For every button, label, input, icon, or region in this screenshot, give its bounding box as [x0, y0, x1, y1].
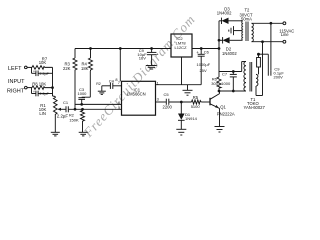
svg-text:10K: 10K [39, 60, 47, 65]
svg-text:150K: 150K [69, 117, 79, 122]
svg-text:2.2µF: 2.2µF [40, 92, 50, 96]
resistor R5 [191, 95, 210, 109]
wire signal line A to IC pin 6 [75, 103, 122, 105]
svg-text:+: + [33, 90, 35, 94]
wire IC2 ground pin [181, 57, 183, 85]
svg-text:INPUT: INPUT [8, 79, 25, 85]
capacitor C9 10uF 16V [137, 48, 159, 66]
capacitor C6 [196, 48, 211, 85]
wire IC1 pin8 riser [115, 48, 121, 82]
transistor Q1 [210, 94, 235, 117]
resistor R7 [32, 56, 53, 69]
wire +V feed to T1 [219, 62, 246, 72]
wire IC1 pin1 to ground bus [156, 84, 202, 86]
svg-text:LIN: LIN [39, 111, 46, 116]
svg-text:50mA: 50mA [241, 17, 252, 22]
IC IC2 LM78L12CZ regulator [171, 34, 192, 57]
svg-text:22K: 22K [63, 66, 71, 71]
svg-text:C4: C4 [109, 78, 115, 83]
ground (T2 CT, rotated) [229, 26, 234, 35]
svg-text:L12CZ: L12CZ [175, 45, 188, 50]
diode D3 [217, 6, 243, 24]
svg-text:7: 7 [118, 80, 120, 85]
wire T1 secondary bottom to AC line [256, 42, 263, 96]
wire Q1 emitter to ground [218, 107, 221, 110]
svg-text:C1: C1 [63, 100, 69, 105]
wire signal line B to IC pin 5 [68, 108, 121, 110]
capacitor C2 right input coupling [32, 88, 53, 97]
svg-text:1000: 1000 [78, 91, 88, 96]
resistor R8 [32, 81, 53, 89]
capacitor C4 [102, 78, 122, 89]
svg-text:+: + [33, 70, 35, 74]
svg-text:YAN-60027: YAN-60027 [244, 105, 266, 110]
potentiometer R1 [39, 96, 66, 132]
capacitor C1 [57, 100, 74, 118]
diode D2 [218, 37, 242, 56]
svg-text:16V: 16V [139, 55, 146, 60]
ground (bus) [183, 85, 193, 96]
svg-text:1000: 1000 [221, 81, 231, 86]
wire T2 primary bottom to AC line [252, 41, 284, 43]
svg-text:FreeCircuitDiagram.Com: FreeCircuitDiagram.Com [80, 12, 198, 141]
IC IC1 LM566CN [118, 80, 159, 115]
capacitor C3 [78, 87, 91, 105]
capacitor C9 0.1uF 200V [268, 66, 284, 79]
transformer T2 [240, 8, 254, 42]
svg-text:R2: R2 [96, 82, 101, 86]
wire R3 column [74, 71, 76, 110]
ground (R1) [51, 132, 60, 136]
wire Q1 collector [220, 91, 247, 94]
node LEFT input terminal [8, 66, 32, 72]
svg-text:LEFT: LEFT [8, 66, 22, 72]
svg-text:C6: C6 [204, 50, 210, 55]
svg-text:1N4002: 1N4002 [222, 51, 237, 56]
svg-text:LM566CN: LM566CN [127, 92, 146, 97]
svg-text:C5: C5 [164, 92, 170, 97]
svg-text:5100: 5100 [191, 104, 201, 109]
svg-text:+: + [196, 50, 199, 55]
ground (Q1) [215, 127, 225, 133]
capacitor C2 left input coupling [32, 67, 53, 96]
transformer T1 [244, 53, 266, 110]
svg-text:Line: Line [281, 32, 290, 37]
svg-text:2.2µF: 2.2µF [40, 72, 50, 76]
node 115VAC terminals [279, 22, 294, 43]
resistor R2 [69, 108, 84, 132]
power rail +12V [75, 49, 171, 59]
ground (R2) [79, 132, 88, 136]
svg-text:3: 3 [157, 97, 159, 102]
svg-text:1N4002: 1N4002 [217, 11, 232, 16]
capacitor C5 2200 [156, 92, 192, 109]
svg-text:R8 10K: R8 10K [32, 81, 46, 86]
svg-text:C7: C7 [222, 71, 228, 76]
svg-text:25V: 25V [200, 68, 207, 73]
svg-text:5: 5 [118, 105, 120, 110]
rectifier bus wire [218, 21, 220, 72]
wire T2 center tap [234, 30, 243, 32]
resistor R3 [63, 58, 77, 71]
wire T1 secondary top to C9 [259, 54, 269, 74]
svg-text:Q1: Q1 [220, 105, 226, 110]
svg-text:RIGHT: RIGHT [7, 89, 25, 95]
ground (D1) [176, 129, 186, 135]
node RIGHT input terminal [7, 86, 32, 94]
resistor R6 [211, 72, 221, 92]
resistor R4 [81, 48, 93, 98]
svg-text:2.2µF: 2.2µF [57, 113, 69, 118]
diode D1 [178, 101, 198, 129]
wire T2 primary top to AC line [252, 22, 284, 24]
wire IC2 out/in [192, 48, 219, 50]
wire AC line drop to C9 [270, 23, 272, 70]
svg-text:200V: 200V [274, 74, 284, 79]
capacitor C7 [221, 71, 237, 92]
svg-text:2200: 2200 [163, 104, 173, 109]
ground (C9 10uF) [146, 66, 157, 70]
svg-text:18K: 18K [81, 66, 89, 71]
svg-text:1000µF: 1000µF [197, 62, 211, 67]
svg-text:1N914: 1N914 [185, 116, 198, 121]
ground (C4) [98, 86, 106, 95]
